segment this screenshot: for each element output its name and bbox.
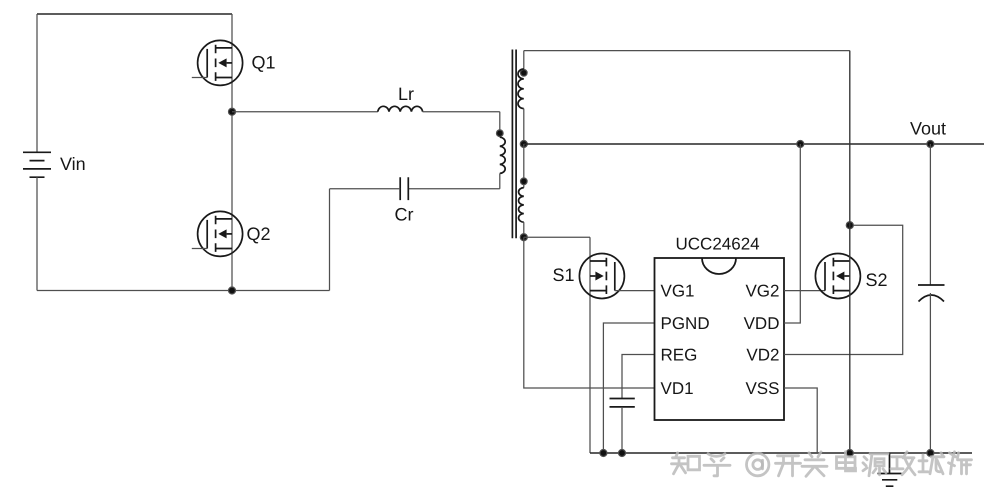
svg-text:Vout: Vout [910,118,946,138]
svg-text:VG1: VG1 [661,282,695,301]
transformer secondary bottom winding [519,188,524,223]
transistor Q1 [198,40,243,85]
transformer secondary top winding [518,69,524,109]
svg-text:Q1: Q1 [252,53,276,73]
node output cap ground [927,450,934,457]
svg-text:Q2: Q2 [247,224,271,244]
ground symbol [878,453,902,486]
node secondary bottom polarity dot [521,178,528,185]
capacitor Cr [400,177,408,200]
wire bottom left [37,290,330,292]
svg-text:PGND: PGND [661,314,710,333]
wire VDD [784,144,800,323]
wire output cap upper [929,144,931,285]
wire secondary middle [523,109,525,144]
svg-text:VD2: VD2 [746,346,779,365]
svg-text:REG: REG [661,346,698,365]
node center tap [520,141,527,148]
wire PGND [603,323,654,453]
wire VG1 [615,290,655,292]
wire secondary lower [523,144,525,188]
transformer core [512,50,516,239]
wire VG2 [784,290,825,292]
wire left upper [36,14,38,152]
wire secondary bottom tail [523,222,525,237]
wire half-bridge rail [231,14,233,291]
node Q2 source [229,287,236,294]
svg-text:VSS: VSS [745,379,779,398]
battery Vin [23,152,51,177]
wire output cap lower [929,293,931,453]
wire Cr left [330,188,401,190]
svg-text:VDD: VDD [744,314,780,333]
wire REG upper [622,355,655,399]
wire Vout rail [524,143,984,145]
node REG ground [619,450,626,457]
svg-text:S2: S2 [866,270,888,290]
svg-text:Vin: Vin [60,154,86,174]
transistor S2 [815,254,860,299]
wire REG lower [621,407,623,453]
wire S1 rail [589,237,591,453]
wire ground rail [590,452,972,454]
wire VSS [784,388,817,453]
wire switch node to Lr [232,111,378,113]
wire top [37,13,232,15]
capacitor Cout [918,285,945,302]
svg-text:UCC24624: UCC24624 [676,235,760,254]
node output cap tap [927,141,934,148]
wire Q2 gate stub [192,248,207,250]
node VD2 to S2 drain [846,222,853,229]
node switch-node [229,108,236,115]
transistor S1 [579,254,624,299]
wire secondary top drop [523,51,525,69]
transformer primary winding [500,137,505,173]
wire primary bottom tail [499,173,501,188]
wire left lower [36,177,38,290]
svg-text:S1: S1 [553,265,575,285]
wire VD1 [524,237,655,388]
capacitor REG bypass [610,399,635,407]
node S2 source ground [846,450,853,457]
node primary polarity dot [497,130,504,137]
wire Lr to transformer [423,111,500,113]
wire S2 rail [849,51,851,453]
wire VD2 [784,225,903,354]
wire Cr right [408,188,500,190]
wire primary top drop [499,112,501,138]
node secondary top polarity dot [521,70,528,77]
wire Cr riser [329,189,331,291]
svg-text:Cr: Cr [395,204,414,224]
op-amp U1 UCC24624 box [655,258,785,420]
svg-text:Lr: Lr [398,84,414,104]
node PGND ground [600,450,607,457]
inductor Lr [378,106,423,111]
watermark text 知乎 @开关电源攻城狮 [672,452,972,477]
wire S1 drain [524,236,590,238]
svg-text:VG2: VG2 [745,282,779,301]
transistor Q2 [198,211,243,256]
wire secondary top rail [524,50,850,52]
node secondary bottom [520,234,527,241]
node VDD tap [797,141,804,148]
wire Q1 gate stub [192,77,207,79]
svg-text:VD1: VD1 [661,379,694,398]
